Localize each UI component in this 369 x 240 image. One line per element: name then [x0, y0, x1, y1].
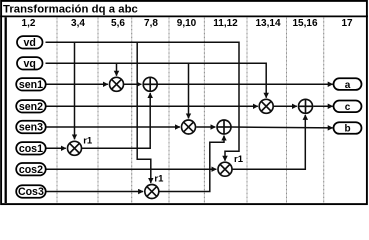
wire vd main run with corner down and jog into multiplier M6 — [46, 42, 240, 160]
svg-text:sen1: sen1 — [19, 79, 43, 91]
wire multiplier M1 to adder A1 — [124, 83, 142, 85]
column separator 8 — [323, 17, 325, 203]
wire multiplier M5 to adder A3 — [274, 105, 297, 107]
input port vd — [17, 36, 43, 49]
wire multiplier M2 output up into adder A1 bottom — [82, 93, 150, 148]
svg-text:r1: r1 — [154, 174, 164, 185]
input port vq — [17, 57, 43, 70]
input port Cos3 — [16, 185, 46, 198]
multiplier M3 (sen3 x vq) — [182, 120, 196, 134]
wire branch vd down with jog into multiplier M4 top — [137, 42, 151, 183]
column separator 1 — [56, 17, 58, 203]
adder A3 (output c) — [299, 99, 313, 113]
wire branch vd to multiplier M2 top — [74, 42, 76, 139]
column separator 7 — [286, 17, 288, 203]
adder A1 (output a) — [143, 77, 157, 91]
title bar separator line — [0, 15, 368, 17]
inner left bus bar — [5, 17, 7, 203]
output port a — [334, 78, 362, 91]
wire sen1 to multiplier M1 — [46, 83, 108, 85]
input port cos2 — [16, 163, 46, 176]
wire cos2 to multiplier M6 — [46, 168, 217, 170]
wire sen3 to multiplier M3 — [46, 126, 180, 128]
wire branch vq to multiplier M1 top — [116, 63, 118, 75]
column separator 6 — [246, 17, 248, 203]
column separator 5 — [203, 17, 205, 203]
svg-text:1,2: 1,2 — [22, 18, 36, 29]
svg-text:cos2: cos2 — [19, 164, 43, 176]
svg-text:3,4: 3,4 — [71, 18, 85, 29]
svg-text:11,12: 11,12 — [213, 18, 238, 29]
input port sen1 — [16, 78, 46, 91]
multiplier M4 (Cos3 x vd, gain r1) — [145, 185, 159, 199]
svg-text:17: 17 — [341, 18, 353, 29]
column separator 2 — [97, 17, 99, 203]
wire adder A2 output to port b — [231, 126, 333, 129]
wire Cos3 to multiplier M4 — [46, 191, 144, 193]
svg-text:13,14: 13,14 — [255, 18, 280, 29]
svg-text:15,16: 15,16 — [292, 18, 317, 29]
svg-text:Transformación dq a abc: Transformación dq a abc — [3, 3, 138, 15]
output port c — [334, 101, 362, 114]
svg-text:r1: r1 — [83, 136, 93, 147]
svg-text:7,8: 7,8 — [144, 18, 158, 29]
svg-text:r1: r1 — [234, 154, 244, 165]
svg-text:5,6: 5,6 — [111, 18, 125, 29]
column separator 4 — [168, 17, 170, 203]
svg-text:sen3: sen3 — [19, 122, 43, 134]
multiplier M6 (cos2 x vd, gain r1) — [218, 162, 232, 176]
wire cos1 to multiplier M2 — [46, 147, 66, 149]
wire multiplier M3 to adder A2 — [196, 126, 215, 128]
svg-text:c: c — [345, 102, 351, 113]
adder A2 (output b) — [217, 120, 231, 134]
wire multiplier M4 output up into adder A2 bottom — [159, 136, 224, 192]
svg-text:Cos3: Cos3 — [18, 186, 44, 198]
wire multiplier M6 output up into adder A3 bottom — [232, 115, 305, 169]
wire vq main run with corner down into multiplier M5 top — [46, 63, 267, 97]
column separator 3 — [131, 17, 133, 203]
multiplier M5 (sen2 x vq) — [259, 99, 273, 113]
wire adder A1 output to port a — [158, 83, 333, 85]
svg-text:vq: vq — [24, 58, 36, 70]
multiplier M1 (sen1 x vq) — [110, 77, 124, 91]
wire adder A3 output to port c — [313, 105, 333, 107]
input port cos1 — [16, 142, 46, 155]
wire branch vq to multiplier M3 top — [188, 63, 190, 118]
svg-text:cos1: cos1 — [19, 143, 43, 155]
svg-text:a: a — [345, 80, 351, 91]
input port sen3 — [16, 121, 46, 134]
output port b — [334, 122, 362, 135]
svg-text:9,10: 9,10 — [177, 18, 197, 29]
input port sen2 — [16, 100, 46, 113]
wire sen2 to multiplier M5 — [46, 105, 258, 107]
multiplier M2 (cos1 x vd, gain r1) — [68, 141, 82, 155]
svg-text:sen2: sen2 — [19, 101, 43, 113]
svg-text:b: b — [344, 124, 350, 135]
svg-text:vd: vd — [24, 37, 36, 49]
